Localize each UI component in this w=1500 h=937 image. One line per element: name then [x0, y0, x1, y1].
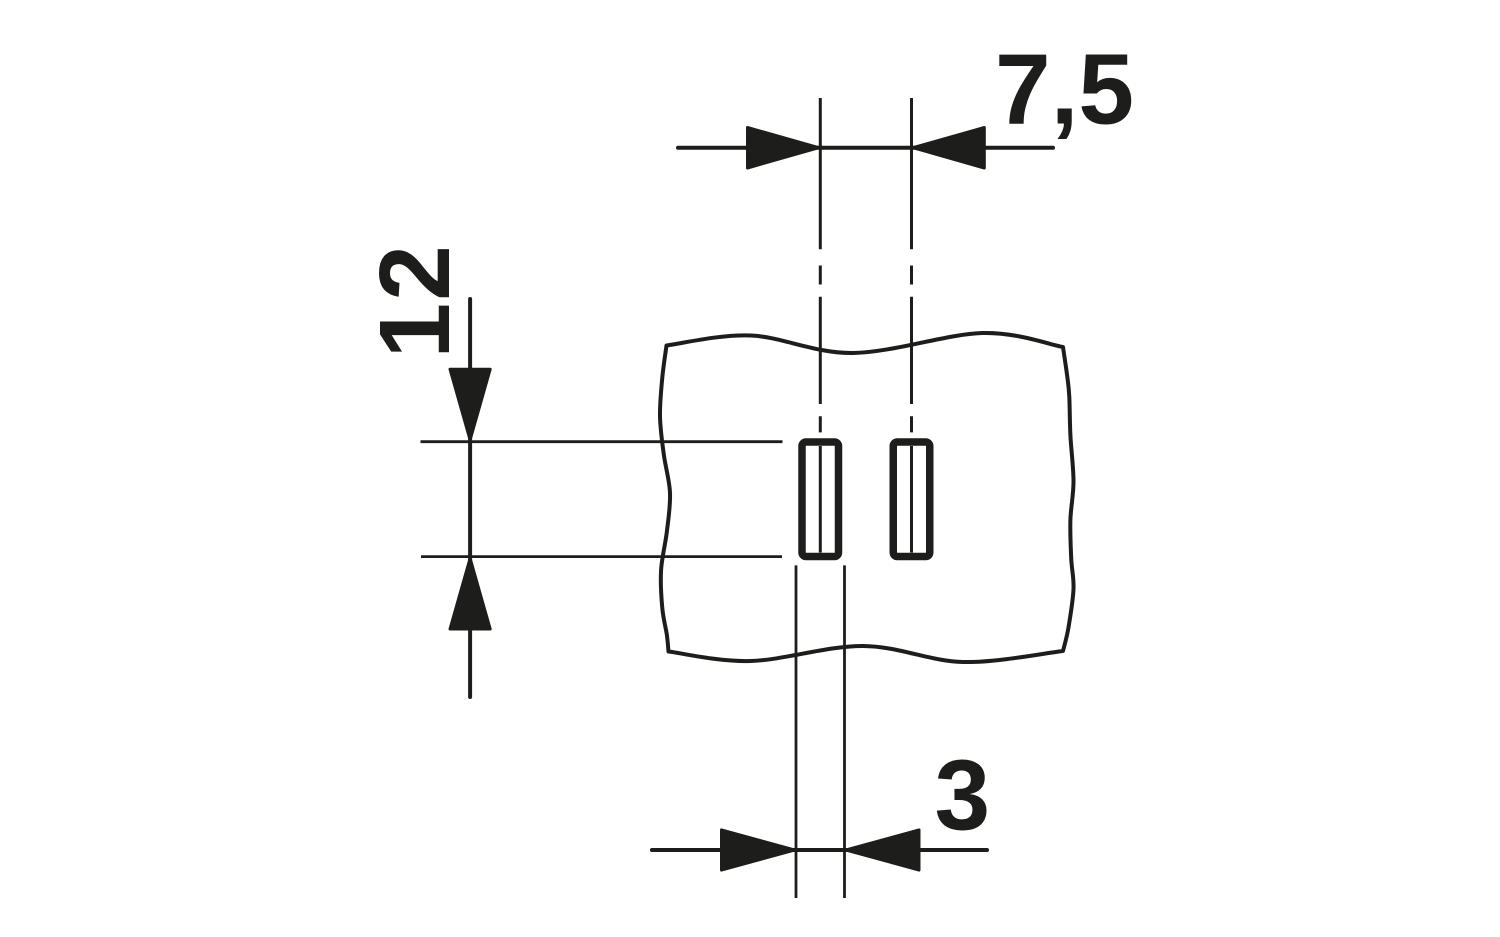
- svg-text:1: 1: [359, 303, 471, 359]
- svg-text:3: 3: [935, 740, 991, 852]
- svg-text:7,5: 7,5: [995, 34, 1134, 146]
- svg-text:2: 2: [359, 245, 471, 301]
